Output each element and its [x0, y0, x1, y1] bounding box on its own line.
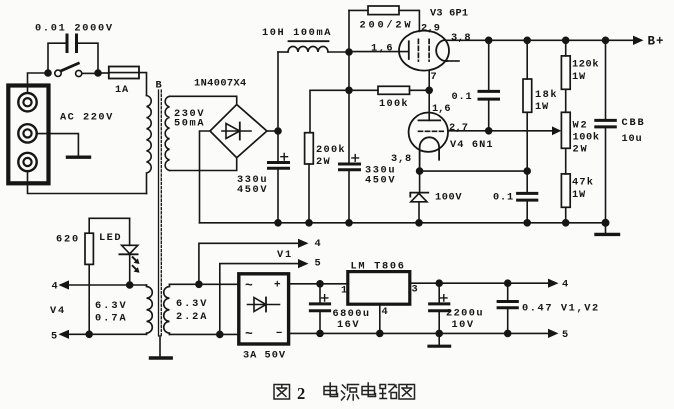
wire heater 5 mid with arrow	[220, 264, 301, 335]
svg-text:LM T806: LM T806	[351, 261, 406, 273]
svg-text:1,6: 1,6	[432, 103, 451, 115]
capacitor C 0.01/2000V	[67, 35, 77, 52]
node B+ rail junction 2	[524, 37, 530, 43]
value label 200k 2W	[316, 144, 346, 168]
svg-text:V3 6P1: V3 6P1	[430, 8, 468, 20]
capacitor C 330u/450V second filter	[340, 155, 360, 223]
wire LM pin 4 to rail	[379, 304, 381, 333]
pin label 2,9	[421, 23, 440, 35]
resistor R 100k	[378, 86, 429, 94]
node V4 cathode junction	[417, 168, 423, 174]
svg-text:4: 4	[382, 306, 388, 318]
value label 1A	[115, 84, 129, 96]
node B+ rail junction 4	[603, 37, 609, 43]
resistor R 18k/1W	[523, 40, 532, 171]
pin label 4	[382, 306, 388, 318]
pin label 7	[431, 71, 437, 83]
svg-text:0.1: 0.1	[452, 91, 473, 103]
LED arrowheads	[134, 258, 140, 272]
node rail 0.47 junction	[505, 330, 511, 336]
svg-text:6.3V: 6.3V	[95, 300, 128, 312]
transformer T1 secondary 230V winding	[165, 96, 169, 170]
svg-text:200/2W: 200/2W	[360, 20, 414, 32]
arrowhead B+	[633, 36, 644, 45]
node bridge positive junction	[275, 128, 281, 134]
wire bridge positive corner to node	[267, 130, 278, 132]
bridge rectifier 3A 50V block	[239, 274, 289, 344]
label AC 220V	[60, 112, 114, 124]
arrowhead heater 4 mid	[298, 239, 309, 248]
V4 dashed electrode	[419, 130, 444, 132]
node rail 2200u junction	[436, 330, 442, 336]
node 0.47 top junction	[505, 280, 511, 286]
svg-text:100k: 100k	[379, 98, 409, 110]
svg-text:1: 1	[341, 285, 347, 297]
wire secondary top to bridge	[170, 96, 237, 104]
svg-text:V1: V1	[277, 249, 293, 261]
value label 330u 450V second	[365, 165, 396, 187]
svg-text:V4: V4	[50, 305, 66, 317]
svg-text:CBB: CBB	[622, 117, 646, 129]
node LM pin4 rail junction	[377, 330, 383, 336]
value label 6.3V 0.7A left	[95, 300, 128, 325]
svg-text:1N4007X4: 1N4007X4	[194, 78, 247, 90]
value label 6.3V 2.2A	[176, 298, 208, 323]
node inductor output B+ feed	[346, 49, 352, 55]
label 4 left	[52, 281, 58, 293]
inductor L1 10H 100mA	[278, 41, 346, 52]
svg-text:4: 4	[52, 281, 58, 293]
svg-text:10H 100mA: 10H 100mA	[262, 27, 332, 39]
resistor R 120k/1W	[561, 40, 570, 112]
wire 2,7 output to pot wiper	[448, 130, 553, 132]
pin label 1,6 V4	[432, 103, 451, 115]
svg-text:10V: 10V	[452, 319, 475, 331]
label LED	[99, 232, 122, 244]
wire B+ node rail down through cap	[348, 10, 350, 163]
wire LM output to 4 arrow	[410, 282, 550, 284]
pin label 1,6 V3	[371, 43, 394, 55]
svg-text:V4 6N1: V4 6N1	[450, 139, 494, 151]
wire heater 5 left with arrow	[61, 333, 147, 335]
wire heater 4 left with arrow	[61, 284, 147, 286]
arrowhead output 4	[548, 279, 559, 288]
svg-text:3A 50V: 3A 50V	[243, 350, 286, 362]
V3 plate arc	[436, 40, 447, 61]
caption char dian 1	[324, 383, 338, 397]
wire bridge negative corner to bottom rail	[200, 131, 211, 223]
ground earth below 2200u	[429, 333, 450, 346]
svg-text:5: 5	[562, 329, 568, 341]
svg-text:50mA: 50mA	[174, 118, 205, 130]
node B+ rail junction 3	[563, 37, 569, 43]
wire cathode row to 18k	[420, 170, 528, 172]
caption figure title	[274, 385, 290, 400]
label 4 mid	[315, 238, 321, 250]
svg-text:2200u: 2200u	[446, 308, 484, 320]
label 5 mid	[315, 258, 321, 270]
transformer core dashed line	[160, 90, 162, 336]
arrowhead output 5	[548, 329, 559, 338]
node 620 bottom junction	[86, 331, 92, 337]
wire T2 secondary top to bridge	[170, 283, 239, 285]
wire node to fuse	[98, 72, 109, 74]
wire fuse to transformer primary	[139, 73, 147, 96]
LED emission arrows	[133, 257, 138, 270]
svg-text:18k: 18k	[535, 89, 558, 101]
node LED bottom junction	[127, 282, 133, 288]
svg-text:16V: 16V	[337, 319, 360, 331]
wire capacitor right down to switch right node	[78, 43, 98, 71]
node rail junction zener	[416, 220, 422, 226]
node 18k bottom junction	[524, 168, 530, 174]
wire 200k top corner	[310, 90, 378, 132]
svg-text:1W: 1W	[535, 101, 549, 113]
capacitor C 330u/450V first filter	[269, 131, 289, 223]
node rail junction divider	[563, 220, 569, 226]
label 1N4007X4	[194, 78, 247, 90]
node rail junction 330u first	[275, 220, 281, 226]
caption char lu	[380, 385, 397, 399]
svg-text:6.3V: 6.3V	[176, 298, 208, 310]
V3 dashed electrodes	[418, 39, 429, 61]
resistor R 47k/1W	[561, 174, 570, 223]
svg-text:2,9: 2,9	[421, 23, 440, 35]
wire heater 4 mid with arrow	[199, 243, 301, 284]
arrowhead heater 4 left	[59, 280, 70, 289]
V4 grid bar	[419, 119, 441, 121]
capacitor C 6800u/16V	[310, 284, 329, 334]
transformer T1 primary winding	[147, 96, 152, 194]
wire positive node up to inductor	[277, 52, 279, 131]
zener diode 100V	[410, 171, 428, 223]
ground earth at transformer core	[151, 336, 172, 358]
svg-text:~: ~	[245, 278, 253, 293]
svg-text:2,7: 2,7	[449, 122, 468, 134]
node rail 6800u junction	[317, 330, 323, 336]
wire secondary bottom to bridge	[170, 158, 237, 171]
capacitor CBB 10u	[596, 40, 616, 223]
value label CBB 10u	[622, 117, 646, 145]
label 5 right	[562, 329, 568, 341]
arrowhead pot wiper	[552, 126, 561, 135]
svg-text:AC 220V: AC 220V	[60, 112, 114, 124]
value label 0.1 second	[493, 192, 514, 204]
label V1 heater	[277, 249, 293, 261]
value label 0.1	[452, 91, 473, 103]
arrowhead heater 5 left	[59, 330, 70, 339]
V4 grid wire from V3 cathode	[428, 90, 430, 120]
value label 100k	[379, 98, 409, 110]
svg-text:B+: B+	[648, 35, 665, 49]
svg-text:120k: 120k	[572, 59, 599, 71]
LED diode	[119, 218, 137, 285]
fuse 1A	[109, 67, 139, 79]
svg-text:4: 4	[562, 279, 568, 291]
node 2200u top junction	[436, 280, 442, 286]
value label 0.01 2000V	[35, 23, 114, 35]
node 100k top junction	[346, 87, 352, 93]
svg-text:2: 2	[297, 384, 305, 403]
capacitor C 2200u/10V	[430, 283, 449, 333]
node rail junction 200k	[306, 220, 312, 226]
node 0.1 output junction	[486, 128, 492, 134]
label 230V 50mA	[174, 108, 205, 130]
value label 6800u 16V	[333, 308, 371, 331]
transformer core solid line	[158, 90, 160, 336]
value label 330u 450V	[237, 174, 268, 196]
wire bridge plus to LM input	[289, 283, 348, 285]
value label 18k 1W	[535, 89, 558, 113]
svg-text:2.2A: 2.2A	[176, 311, 208, 323]
svg-text:0.47 V1,V2: 0.47 V1,V2	[522, 303, 600, 315]
svg-text:450V: 450V	[365, 175, 396, 187]
svg-text:47k: 47k	[572, 177, 594, 189]
switch S1	[55, 63, 95, 76]
svg-text:0.7A: 0.7A	[95, 313, 128, 325]
node rail junction 330u second	[346, 220, 352, 226]
svg-text:3: 3	[412, 284, 418, 296]
pin label 3	[412, 284, 418, 296]
wire grid feed to V3	[349, 51, 408, 53]
svg-text:5: 5	[51, 330, 57, 342]
caption char yuan	[342, 385, 359, 401]
wire 620 top to LED top	[89, 217, 129, 219]
svg-text:~: ~	[245, 327, 253, 342]
value label 3A 50V	[243, 350, 286, 362]
wire B+ rail	[445, 39, 634, 41]
value label 47k 1W	[572, 177, 594, 202]
svg-text:–: –	[276, 326, 283, 340]
V3 grid bar	[408, 41, 410, 59]
label V4 6N1	[450, 139, 494, 151]
resistor R 620	[85, 218, 93, 334]
caption char tu	[399, 385, 415, 400]
value label 0.47 V1,V2	[522, 303, 600, 315]
value label 2200u 10V	[446, 308, 484, 332]
label B+	[648, 35, 665, 49]
node rail end junction	[602, 220, 608, 226]
svg-text:10u: 10u	[622, 133, 643, 145]
svg-text:5: 5	[315, 258, 321, 270]
tube V3 6P1 envelope	[399, 31, 449, 71]
svg-text:100k: 100k	[573, 132, 600, 144]
label 5 left	[51, 330, 57, 342]
ground earth bar at socket	[68, 155, 90, 158]
svg-text:+: +	[274, 280, 281, 292]
V4 cathode arc	[420, 137, 440, 171]
svg-text:1A: 1A	[115, 84, 129, 96]
svg-text:LED: LED	[99, 232, 122, 244]
svg-text:3,8: 3,8	[451, 32, 471, 44]
value label 120k 1W	[572, 59, 599, 84]
diode symbol inside 3A bridge	[248, 298, 280, 312]
svg-text:0.1: 0.1	[493, 192, 514, 204]
node rail junction 0.1	[524, 220, 530, 226]
wire T2 secondary bottom to bridge	[170, 333, 239, 335]
pin label 1	[341, 285, 347, 297]
capacitor C 0.1 coupling	[479, 40, 499, 131]
caption char dian 2	[362, 383, 376, 397]
transformer T2 winding 6.3V 2.2A	[164, 284, 170, 334]
regulator U1 LM T806	[348, 272, 410, 305]
node heater 5 tap	[217, 331, 223, 337]
svg-text:2W: 2W	[573, 144, 589, 156]
label V4 heater	[50, 305, 66, 317]
node heater 4 tap	[196, 281, 202, 287]
pin label 2,7	[449, 122, 468, 134]
value label 620	[56, 234, 80, 246]
wire bottom ground rail	[200, 222, 606, 224]
ground earth bar at rail end	[596, 223, 619, 235]
svg-text:1,6: 1,6	[371, 43, 394, 55]
node B+ rail junction 1	[486, 37, 492, 43]
node B label	[156, 80, 162, 92]
bridge pin marks	[245, 278, 283, 342]
tube V4 6N1 envelope	[409, 113, 448, 152]
svg-text:1W: 1W	[572, 71, 586, 83]
resistor R 200/2W screen feed	[349, 6, 419, 31]
arrowhead heater 5 mid	[298, 259, 309, 268]
svg-text:100V: 100V	[435, 192, 462, 204]
wire socket top pin to switch	[28, 73, 46, 93]
svg-text:450V: 450V	[237, 184, 268, 196]
label LM T806	[351, 261, 406, 273]
bridge rectifier 1N4007X4 diamond	[210, 105, 267, 158]
value label 10H 100mA	[262, 27, 332, 39]
wire junction up to capacitor left	[48, 43, 66, 71]
value label 200/2W	[360, 20, 414, 32]
label V3 6P1	[430, 8, 468, 20]
diode symbol inside bridge	[222, 123, 251, 140]
svg-text:3,8: 3,8	[391, 153, 412, 165]
transformer T2 winding 6.3V 0.7A	[147, 285, 153, 334]
caption numeral 2	[297, 384, 305, 403]
pin label 3,8 V3	[451, 32, 471, 44]
wire socket bottom pin to primary bottom	[28, 172, 147, 194]
svg-text:4: 4	[315, 238, 321, 250]
V3 cathode wire pin 7	[428, 70, 430, 90]
V3 plate stub	[447, 60, 459, 62]
potentiometer W2 100k/2W	[561, 112, 570, 174]
wire socket middle pin to ground	[37, 134, 78, 155]
node 6800u junction	[317, 281, 323, 287]
value label 100V	[435, 192, 462, 204]
svg-text:0.01 2000V: 0.01 2000V	[35, 23, 114, 35]
capacitor C 0.47	[498, 283, 517, 333]
AC socket connector	[8, 86, 48, 184]
resistor R 200k/2W	[305, 133, 314, 223]
value label W2 100k 2W	[573, 120, 600, 156]
wire bottom heater rail to 5 arrow	[289, 332, 550, 334]
svg-text:7: 7	[431, 71, 437, 83]
svg-text:200k: 200k	[316, 144, 346, 156]
svg-text:W2: W2	[573, 120, 589, 132]
label 4 right	[562, 279, 568, 291]
node V3 cathode junction	[426, 87, 432, 93]
svg-text:2W: 2W	[316, 156, 331, 168]
node switch left junction	[45, 70, 51, 76]
node switch right junction	[95, 70, 101, 76]
svg-text:620: 620	[56, 234, 80, 246]
pin label 3,8 V4	[391, 153, 412, 165]
svg-text:1W: 1W	[572, 189, 586, 201]
capacitor C 0.1 cathode bypass	[518, 171, 537, 223]
